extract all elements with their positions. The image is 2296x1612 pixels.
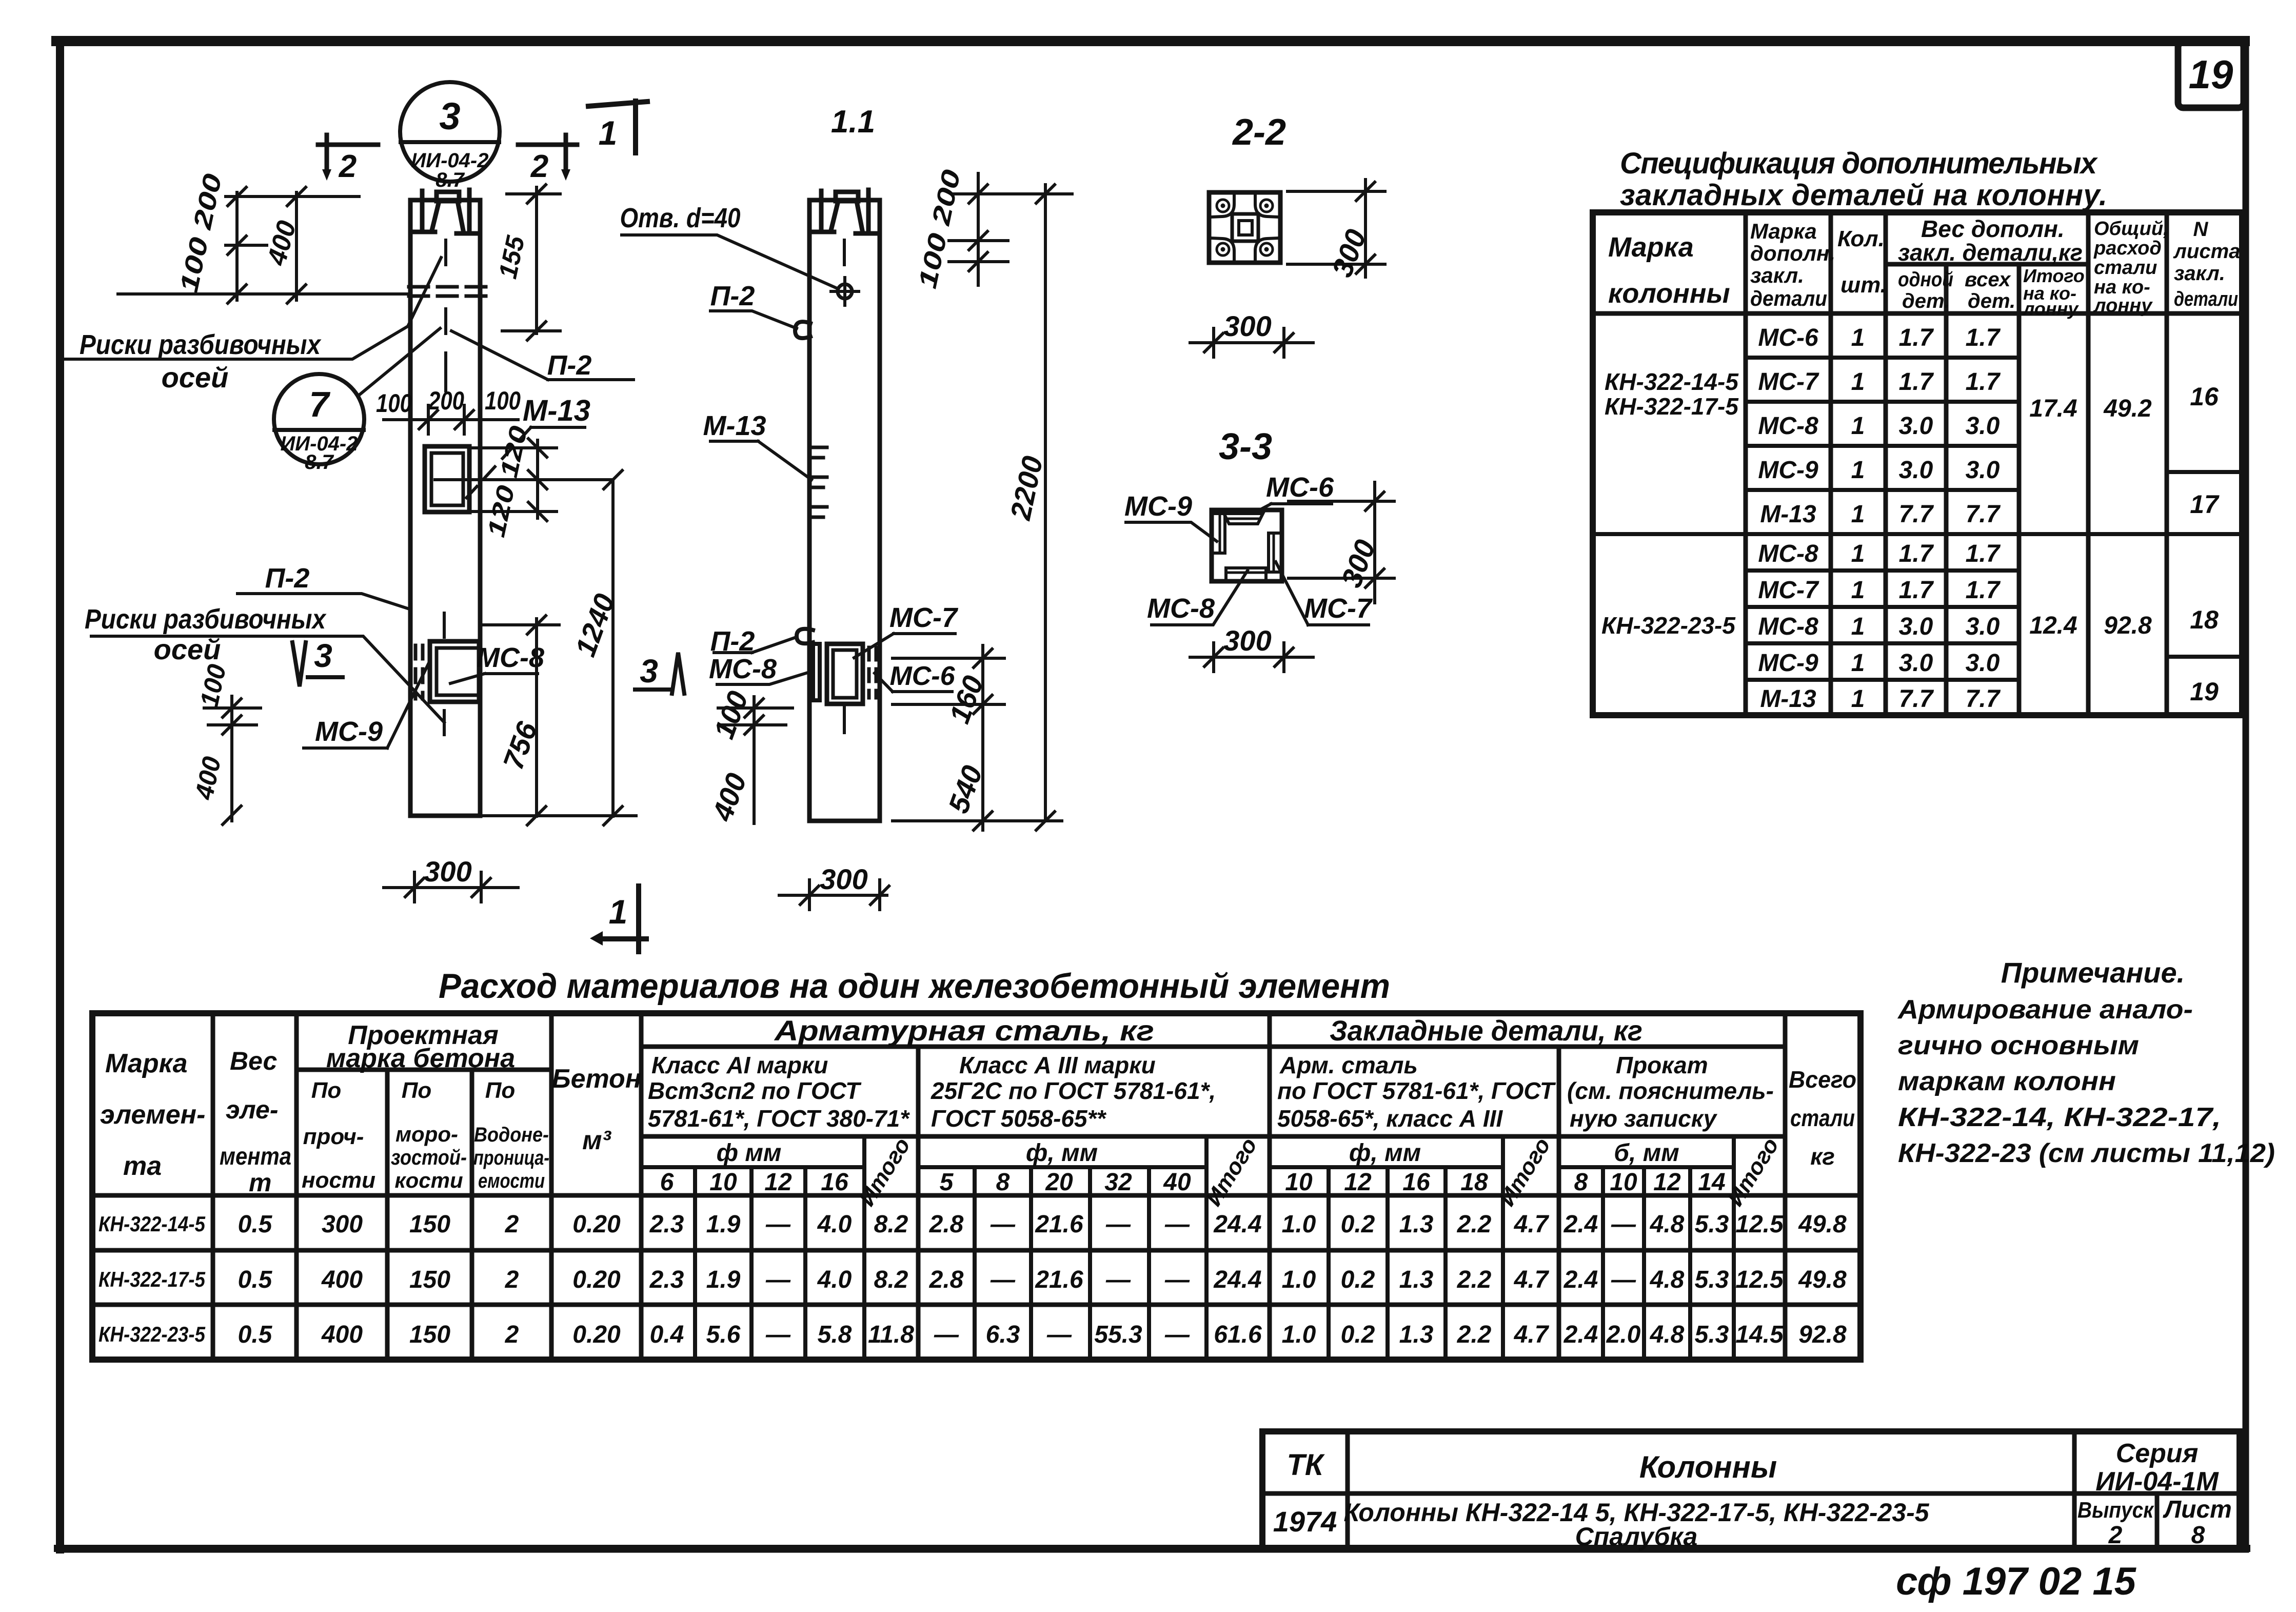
- M-13 leader dashed: [464, 427, 531, 500]
- svg-text:лонну: лонну: [2022, 298, 2079, 319]
- svg-text:1: 1: [1851, 324, 1865, 351]
- svg-text:(см. пояснитель-: (см. пояснитель-: [1567, 1077, 1774, 1104]
- svg-text:Водоне-: Водоне-: [474, 1124, 549, 1146]
- svg-text:2.8: 2.8: [929, 1211, 964, 1238]
- svg-text:МС-9: МС-9: [1758, 457, 1818, 484]
- svg-text:21.6: 21.6: [1035, 1211, 1083, 1238]
- svg-text:6: 6: [660, 1169, 674, 1196]
- svg-text:150: 150: [409, 1321, 450, 1348]
- svg-text:моро-: моро-: [395, 1122, 458, 1146]
- plate M-13 rect: [425, 446, 469, 512]
- svg-text:стали: стали: [2094, 257, 2157, 279]
- section 2-2 corner anchor TL: [1211, 194, 1234, 217]
- column 1 axis tick top: [444, 240, 447, 265]
- svg-text:стали: стали: [1790, 1105, 1855, 1131]
- svg-text:20: 20: [1045, 1169, 1073, 1196]
- svg-text:12.5: 12.5: [1735, 1211, 1784, 1238]
- svg-text:3: 3: [640, 653, 658, 690]
- svg-text:всех: всех: [1965, 268, 2011, 291]
- svg-text:МС-8: МС-8: [1758, 540, 1818, 567]
- svg-text:закл.: закл.: [1750, 263, 1804, 287]
- svg-text:12.5: 12.5: [1735, 1266, 1784, 1293]
- svg-text:3-3: 3-3: [1219, 426, 1272, 467]
- dim 300 bottom col1: [384, 872, 518, 902]
- svg-text:марка бетона: марка бетона: [326, 1044, 515, 1073]
- svg-text:Класс АI марки: Класс АI марки: [651, 1052, 828, 1078]
- svg-text:1.9: 1.9: [706, 1211, 741, 1238]
- svg-text:ВстЗсп2 по ГОСТ: ВстЗсп2 по ГОСТ: [648, 1077, 862, 1104]
- svg-text:закл.: закл.: [2174, 262, 2225, 285]
- svg-text:—: —: [1105, 1266, 1131, 1293]
- section flag 3 left: [292, 642, 306, 686]
- svg-text:Арм. сталь: Арм. сталь: [1279, 1052, 1418, 1078]
- svg-text:0.20: 0.20: [572, 1266, 621, 1293]
- M-13 hatch marks col2: [811, 447, 827, 517]
- svg-text:М-13: М-13: [1760, 501, 1816, 528]
- dim 1240 vertical: [611, 480, 615, 816]
- svg-text:осей: осей: [154, 633, 221, 665]
- dim lines left of col1: [237, 192, 296, 300]
- svg-text:0.5: 0.5: [238, 1266, 273, 1293]
- svg-text:1: 1: [1851, 650, 1865, 677]
- svg-text:7.7: 7.7: [1899, 501, 1934, 528]
- svg-text:МС-9: МС-9: [1758, 650, 1818, 677]
- svg-text:2.2: 2.2: [1457, 1321, 1492, 1348]
- detail circle 3 ИИ-04-2 8.7: [400, 82, 500, 182]
- svg-text:Примечание.: Примечание.: [2001, 956, 2185, 989]
- svg-text:0.5: 0.5: [238, 1211, 273, 1238]
- svg-text:МС-8: МС-8: [1758, 412, 1818, 440]
- svg-text:1.7: 1.7: [1899, 324, 1934, 351]
- svg-text:49.8: 49.8: [1798, 1266, 1847, 1293]
- svg-text:МС-9: МС-9: [315, 716, 383, 747]
- svg-text:Кол.: Кол.: [1837, 226, 1885, 251]
- svg-text:4.8: 4.8: [1650, 1321, 1685, 1348]
- section mark 2 left: [318, 135, 378, 169]
- svg-text:Спецификация дополнительных: Спецификация дополнительных: [1620, 147, 2099, 180]
- svg-text:5058-65*, класс А III: 5058-65*, класс А III: [1277, 1105, 1503, 1132]
- column 1 outline (facade view): [410, 232, 480, 816]
- svg-text:100: 100: [485, 386, 521, 415]
- svg-text:та: та: [123, 1151, 162, 1181]
- svg-text:12: 12: [1653, 1169, 1681, 1196]
- svg-text:5.3: 5.3: [1695, 1211, 1729, 1238]
- svg-text:—: —: [1611, 1266, 1636, 1293]
- column 2 crown notch lines: [831, 201, 862, 230]
- column 2 crown cap: [836, 192, 858, 201]
- svg-text:5.6: 5.6: [706, 1321, 741, 1348]
- svg-text:0.2: 0.2: [1341, 1266, 1375, 1293]
- svg-text:КН-322-23-5: КН-322-23-5: [1601, 612, 1736, 639]
- svg-text:КН-322-23 (см листы 11,12): КН-322-23 (см листы 11,12): [1898, 1138, 2275, 1168]
- svg-text:100: 100: [376, 389, 412, 418]
- svg-text:92.8: 92.8: [2104, 612, 2152, 639]
- svg-text:МС-8: МС-8: [1147, 593, 1215, 624]
- svg-text:8.7: 8.7: [305, 451, 334, 474]
- svg-text:Бетон: Бетон: [552, 1064, 641, 1094]
- svg-text:П-2: П-2: [265, 563, 310, 594]
- section 2-2 corner anchor TR: [1255, 194, 1279, 217]
- section 3-3 plate MC-8 bottom: [1226, 568, 1266, 578]
- svg-text:3.0: 3.0: [1899, 457, 1933, 484]
- svg-text:Армирование анало-: Армирование анало-: [1897, 995, 2193, 1025]
- svg-text:ф, мм: ф, мм: [1026, 1139, 1098, 1167]
- column 2 outline (view 1-1): [809, 232, 880, 821]
- svg-text:Серия: Серия: [2116, 1439, 2199, 1468]
- dim 155 right of col1: [502, 187, 560, 333]
- svg-text:0.20: 0.20: [572, 1321, 621, 1348]
- svg-text:Закладные детали, кг: Закладные детали, кг: [1330, 1014, 1642, 1047]
- svg-text:МС-8: МС-8: [477, 642, 544, 673]
- svg-text:4.7: 4.7: [1514, 1211, 1550, 1238]
- svg-text:150: 150: [409, 1211, 450, 1238]
- svg-text:1: 1: [609, 893, 628, 931]
- spec table horizontals: [1593, 264, 2242, 313]
- svg-text:1: 1: [1851, 577, 1865, 604]
- svg-text:3: 3: [439, 95, 460, 137]
- svg-text:Расход материалов на один: Расход материалов на один железобетонный…: [439, 967, 1390, 1006]
- svg-text:2.8: 2.8: [929, 1266, 964, 1293]
- svg-text:М-13: М-13: [1760, 685, 1816, 713]
- svg-text:2: 2: [505, 1321, 519, 1348]
- svg-text:4.7: 4.7: [1514, 1266, 1550, 1293]
- svg-text:2: 2: [530, 149, 548, 184]
- svg-text:92.8: 92.8: [1798, 1321, 1847, 1348]
- svg-text:—: —: [1164, 1266, 1190, 1293]
- svg-text:МС-7: МС-7: [1304, 593, 1373, 624]
- svg-text:МС-6: МС-6: [1758, 324, 1818, 351]
- svg-text:—: —: [990, 1211, 1016, 1238]
- svg-text:300: 300: [424, 855, 471, 888]
- svg-text:П-2: П-2: [547, 350, 592, 381]
- svg-text:19: 19: [2189, 52, 2233, 97]
- svg-text:1.1: 1.1: [831, 104, 875, 140]
- svg-text:24.4: 24.4: [1213, 1266, 1261, 1293]
- bottom table verticals: [213, 1013, 1785, 1360]
- svg-text:МС-7: МС-7: [1758, 577, 1819, 604]
- section 3-3 dim 300 right: [1289, 482, 1394, 603]
- svg-text:8.2: 8.2: [874, 1266, 908, 1293]
- section 2-2 dim 300 right: [1288, 180, 1385, 277]
- page number box: [2178, 42, 2244, 108]
- svg-text:8.2: 8.2: [874, 1211, 908, 1238]
- svg-text:2: 2: [505, 1211, 519, 1238]
- svg-text:1974: 1974: [1273, 1505, 1337, 1538]
- svg-text:55.3: 55.3: [1094, 1321, 1142, 1348]
- svg-text:шт.: шт.: [1840, 272, 1887, 298]
- svg-text:МС-8: МС-8: [1758, 613, 1818, 640]
- spec table verticals: [1746, 212, 2167, 715]
- svg-text:1: 1: [1851, 540, 1865, 567]
- svg-text:Спалубка: Спалубка: [1575, 1522, 1698, 1551]
- svg-text:32: 32: [1104, 1169, 1132, 1196]
- section flag 1 bottom: [601, 886, 646, 952]
- svg-text:12.4: 12.4: [2029, 612, 2077, 639]
- svg-text:зостой-: зостой-: [391, 1145, 467, 1169]
- column 1 crown cap: [437, 192, 459, 201]
- svg-text:сф 197 02 15: сф 197 02 15: [1896, 1560, 2136, 1603]
- svg-text:5: 5: [940, 1169, 954, 1196]
- section 2-2 dim 300 bottom: [1190, 328, 1313, 357]
- svg-text:1: 1: [1851, 501, 1865, 528]
- section 2-2 corner anchor BR: [1255, 238, 1279, 261]
- svg-text:ТК: ТК: [1286, 1448, 1324, 1482]
- svg-text:1.7: 1.7: [1966, 324, 2001, 351]
- hook P-2 col2: [795, 322, 810, 338]
- svg-text:200: 200: [428, 386, 464, 415]
- svg-text:0.4: 0.4: [650, 1321, 684, 1348]
- svg-text:КН-322-23-5: КН-322-23-5: [98, 1322, 206, 1346]
- svg-text:17: 17: [2190, 490, 2220, 519]
- svg-text:7.7: 7.7: [1966, 685, 2001, 713]
- svg-text:Арматурная сталь, кг: Арматурная сталь, кг: [774, 1014, 1154, 1047]
- svg-text:По: По: [485, 1078, 516, 1103]
- svg-text:1.7: 1.7: [1966, 540, 2001, 567]
- MC-9 dashed plate col1: [415, 645, 423, 699]
- svg-text:1.7: 1.7: [1899, 577, 1934, 604]
- svg-text:1.0: 1.0: [1282, 1266, 1316, 1293]
- svg-text:Вес: Вес: [230, 1047, 278, 1075]
- svg-text:эле-: эле-: [226, 1095, 279, 1124]
- svg-text:1.7: 1.7: [1899, 368, 1934, 396]
- svg-text:дет.: дет.: [1902, 290, 1950, 312]
- svg-text:закл. детали,кг: закл. детали,кг: [1898, 239, 2083, 266]
- svg-text:300: 300: [820, 863, 867, 895]
- spec table frame: [1593, 212, 2242, 715]
- svg-text:2.4: 2.4: [1563, 1266, 1598, 1293]
- dim 756 vertical: [482, 619, 636, 816]
- svg-text:6.3: 6.3: [986, 1321, 1020, 1348]
- svg-text:25Г2С по ГОСТ 5781-61*,: 25Г2С по ГОСТ 5781-61*,: [931, 1077, 1216, 1104]
- MC-7 plate rect col2: [827, 644, 863, 704]
- svg-text:4.0: 4.0: [817, 1211, 852, 1238]
- svg-text:3.0: 3.0: [1966, 650, 2000, 677]
- svg-text:1: 1: [1851, 613, 1865, 640]
- svg-text:—: —: [1105, 1211, 1131, 1238]
- svg-text:2.2: 2.2: [1457, 1266, 1492, 1293]
- section 3-3 dim 300 bottom: [1190, 643, 1313, 672]
- svg-text:Марка: Марка: [105, 1049, 188, 1078]
- svg-text:40: 40: [1163, 1169, 1191, 1196]
- svg-text:детали: детали: [1750, 286, 1827, 310]
- section mark 2 right: [518, 135, 577, 169]
- svg-text:14.5: 14.5: [1735, 1321, 1784, 1348]
- svg-text:М-13: М-13: [523, 394, 590, 427]
- svg-text:кг: кг: [1810, 1143, 1835, 1170]
- svg-text:2.4: 2.4: [1563, 1211, 1598, 1238]
- svg-text:листа: листа: [2173, 240, 2240, 263]
- svg-text:—: —: [1046, 1321, 1072, 1348]
- svg-text:П-2: П-2: [710, 281, 755, 311]
- svg-text:19: 19: [2190, 677, 2219, 706]
- svg-text:осей: осей: [162, 361, 229, 394]
- section 2-2 corner anchor BL: [1211, 238, 1234, 261]
- svg-text:детали: детали: [2174, 288, 2238, 310]
- svg-text:0.2: 0.2: [1341, 1211, 1375, 1238]
- svg-text:5.8: 5.8: [818, 1321, 852, 1348]
- svg-text:8: 8: [1574, 1169, 1588, 1196]
- svg-text:1: 1: [1851, 412, 1865, 440]
- svg-text:16: 16: [1402, 1169, 1430, 1196]
- svg-text:2: 2: [339, 149, 357, 184]
- column 1 crown band: [410, 200, 480, 232]
- svg-text:элемен-: элемен-: [100, 1100, 205, 1130]
- svg-text:кости: кости: [394, 1168, 463, 1192]
- svg-text:18: 18: [2190, 605, 2219, 634]
- svg-text:300: 300: [1223, 310, 1271, 342]
- svg-text:м³: м³: [582, 1126, 611, 1155]
- plate MC-8 rect col1: [430, 641, 479, 702]
- svg-text:Вес дополн.: Вес дополн.: [1921, 215, 2065, 242]
- svg-text:8: 8: [996, 1169, 1010, 1196]
- P-2 hook col2 bottom: [797, 629, 813, 644]
- svg-text:11.8: 11.8: [868, 1321, 914, 1348]
- svg-text:МС-6: МС-6: [1266, 472, 1334, 503]
- svg-text:По: По: [402, 1078, 432, 1103]
- svg-text:гично основным: гично основным: [1898, 1031, 2139, 1060]
- bottom table frame: [92, 1013, 1860, 1360]
- svg-text:4.8: 4.8: [1650, 1211, 1685, 1238]
- svg-text:2-2: 2-2: [1232, 112, 1286, 153]
- section flag 1 top: [588, 101, 647, 153]
- svg-text:Прокат: Прокат: [1616, 1052, 1708, 1078]
- svg-text:4.8: 4.8: [1650, 1266, 1685, 1293]
- svg-text:1.7: 1.7: [1899, 540, 1934, 567]
- svg-text:49.2: 49.2: [2103, 395, 2152, 422]
- svg-text:1.3: 1.3: [1399, 1211, 1434, 1238]
- svg-text:1.0: 1.0: [1282, 1321, 1316, 1348]
- column 1 crown notch lines: [432, 201, 463, 230]
- svg-text:ную записку: ную записку: [1570, 1105, 1718, 1132]
- svg-text:б, мм: б, мм: [1614, 1139, 1679, 1167]
- svg-text:3.0: 3.0: [1899, 650, 1933, 677]
- section 3-3 plate MC-6 top: [1224, 514, 1263, 524]
- bottom table horizontals: [92, 1047, 1860, 1305]
- svg-text:—: —: [765, 1321, 791, 1348]
- svg-text:КН-322-17-5: КН-322-17-5: [98, 1267, 206, 1291]
- svg-text:1.3: 1.3: [1399, 1321, 1434, 1348]
- MC-8 plate col2 left edge: [813, 644, 820, 700]
- svg-text:0.5: 0.5: [238, 1321, 273, 1348]
- svg-text:150: 150: [409, 1266, 450, 1293]
- svg-text:1: 1: [1851, 457, 1865, 484]
- svg-text:0.2: 0.2: [1341, 1321, 1375, 1348]
- svg-text:7: 7: [309, 384, 331, 424]
- svg-text:емости: емости: [478, 1170, 545, 1192]
- svg-text:1.7: 1.7: [1966, 368, 2001, 396]
- svg-text:1.0: 1.0: [1282, 1211, 1316, 1238]
- svg-text:МС-6: МС-6: [889, 661, 955, 691]
- svg-text:7.7: 7.7: [1899, 685, 1934, 713]
- svg-text:300: 300: [1223, 624, 1271, 657]
- svg-text:300: 300: [322, 1211, 363, 1238]
- svg-text:Риски разбивочных: Риски разбивочных: [80, 329, 322, 360]
- svg-text:маркам колонн: маркам колонн: [1898, 1067, 2116, 1096]
- svg-text:—: —: [1611, 1211, 1636, 1238]
- svg-text:5.3: 5.3: [1695, 1266, 1729, 1293]
- svg-text:Лист: Лист: [2163, 1496, 2232, 1523]
- axis tick below MC-8: [443, 613, 446, 735]
- svg-text:2: 2: [2108, 1522, 2123, 1549]
- svg-text:мента: мента: [220, 1143, 291, 1170]
- svg-text:8.7: 8.7: [436, 169, 465, 191]
- svg-text:16: 16: [821, 1169, 848, 1196]
- svg-text:N: N: [2193, 218, 2209, 241]
- section 2-2 center duct: [1232, 214, 1258, 241]
- svg-text:16: 16: [2190, 382, 2219, 411]
- dim 120 120 vertical: [435, 440, 613, 518]
- svg-text:2: 2: [505, 1266, 519, 1293]
- svg-text:—: —: [765, 1211, 791, 1238]
- svg-text:0.20: 0.20: [572, 1211, 621, 1238]
- svg-text:—: —: [934, 1321, 959, 1348]
- svg-text:закладных деталей на колонн: закладных деталей на колонну.: [1620, 179, 2107, 212]
- svg-text:КН-322-14, КН-322-17,: КН-322-14, КН-322-17,: [1898, 1103, 2221, 1132]
- dim 100 400 bottom-left col1: [204, 696, 261, 821]
- svg-text:КН-322-14-5: КН-322-14-5: [1605, 368, 1739, 395]
- svg-text:3.0: 3.0: [1966, 457, 2000, 484]
- svg-text:2.3: 2.3: [649, 1266, 684, 1293]
- svg-text:—: —: [1164, 1321, 1190, 1348]
- svg-text:Класс А III марки: Класс А III марки: [959, 1052, 1156, 1078]
- svg-text:8: 8: [2191, 1522, 2205, 1549]
- svg-text:Риски разбивочных: Риски разбивочных: [85, 604, 327, 635]
- MC-6 dashes col2 right: [869, 647, 876, 698]
- svg-text:КН-322-14-5: КН-322-14-5: [98, 1212, 206, 1236]
- title block lines: [1262, 1431, 2240, 1549]
- hole circle Отв d=40: [838, 284, 852, 299]
- svg-text:лонну: лонну: [2093, 295, 2153, 317]
- svg-text:49.8: 49.8: [1798, 1211, 1847, 1238]
- svg-text:2.4: 2.4: [1563, 1321, 1598, 1348]
- svg-text:400: 400: [321, 1266, 363, 1293]
- svg-text:Марка: Марка: [1750, 219, 1817, 243]
- svg-text:61.6: 61.6: [1214, 1321, 1262, 1348]
- svg-text:17.4: 17.4: [2029, 395, 2077, 422]
- svg-text:колонны: колонны: [1608, 278, 1730, 309]
- svg-text:М-13: М-13: [703, 410, 766, 441]
- svg-text:21.6: 21.6: [1035, 1266, 1083, 1293]
- svg-text:1.3: 1.3: [1399, 1266, 1434, 1293]
- svg-text:ф мм: ф мм: [717, 1139, 782, 1167]
- column 1 axis tick 2: [444, 353, 447, 391]
- svg-text:—: —: [1164, 1211, 1190, 1238]
- svg-text:3.0: 3.0: [1966, 613, 2000, 640]
- svg-text:дополн.: дополн.: [1750, 241, 1835, 265]
- column 2 crown band: [809, 200, 880, 232]
- detail circle 7 ИИ-04-2 8.7: [274, 374, 364, 464]
- svg-text:МС-7: МС-7: [889, 602, 959, 633]
- svg-text:1: 1: [1851, 685, 1865, 713]
- svg-text:400: 400: [321, 1321, 363, 1348]
- svg-text:10: 10: [1285, 1169, 1313, 1196]
- section 3-3 plate MC-7 right: [1269, 533, 1278, 572]
- svg-text:3.0: 3.0: [1899, 412, 1933, 440]
- svg-text:ИИ-04-1М: ИИ-04-1М: [2095, 1467, 2219, 1497]
- axis tick mid col1: [444, 309, 447, 333]
- svg-text:12: 12: [764, 1169, 792, 1196]
- title block frame: [1262, 1431, 2240, 1549]
- axis tick bottom col2: [843, 707, 846, 733]
- section 2-2 outline: [1209, 192, 1280, 263]
- svg-text:2.3: 2.3: [649, 1211, 684, 1238]
- svg-text:КН-322-17-5: КН-322-17-5: [1605, 393, 1739, 420]
- svg-text:3: 3: [314, 637, 332, 674]
- svg-text:расход: расход: [2093, 238, 2162, 259]
- svg-text:Отв. d=40: Отв. d=40: [620, 203, 741, 233]
- dim 300 bottom col2: [779, 880, 887, 910]
- svg-text:5781-61*, ГОСТ 380-71*: 5781-61*, ГОСТ 380-71*: [648, 1105, 910, 1132]
